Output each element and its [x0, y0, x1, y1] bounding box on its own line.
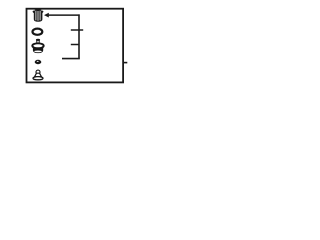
callout arrowhead: [44, 13, 49, 18]
part 2: o-ring gasket: [33, 29, 43, 35]
part 4: small seal dot: [35, 60, 42, 64]
callout horizontal line: [49, 14, 80, 16]
tick on right frame edge: [123, 62, 127, 64]
bracket tick 1: [71, 29, 83, 31]
diagram frame box: [27, 9, 124, 83]
bracket tick 2: [71, 44, 79, 46]
part 3: valve cap with stem: [32, 39, 43, 53]
bracket bottom line: [62, 58, 80, 60]
background: [0, 0, 150, 92]
part 5: bell weight: [33, 70, 43, 80]
bracket vertical line: [78, 14, 80, 58]
part 1: ribbed cap: [33, 8, 44, 22]
